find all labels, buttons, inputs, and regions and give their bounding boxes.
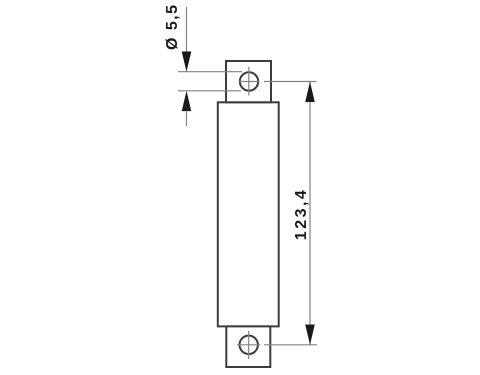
arrowhead down to hole top: [182, 52, 192, 72]
bottom hole crosshair vertical: [248, 331, 250, 359]
svg-text:123,4: 123,4: [293, 190, 310, 240]
dimension line diameter upper: [186, 7, 188, 53]
dimension line 123,4: [309, 82, 311, 345]
top hole circle: [240, 72, 258, 90]
arrowhead up to hole bottom: [182, 91, 192, 111]
bottom hole circle: [240, 336, 258, 354]
extension line hole top: [178, 71, 242, 73]
dimension line diameter lower: [186, 111, 188, 127]
top hole crosshair horizontal: [239, 81, 259, 83]
main body rectangle: [218, 102, 279, 326]
top hole crosshair vertical: [248, 67, 250, 96]
extension line hole bottom: [178, 90, 241, 92]
top mounting tab: [226, 61, 271, 102]
bottom hole crosshair horizontal: [237, 344, 261, 346]
arrowhead down: [305, 325, 315, 345]
arrowhead up: [305, 82, 315, 102]
bottom mounting tab: [226, 326, 270, 367]
extension line top right: [264, 81, 317, 83]
svg-text:Ø 5,5: Ø 5,5: [164, 5, 181, 50]
extension line bottom right: [264, 344, 317, 346]
